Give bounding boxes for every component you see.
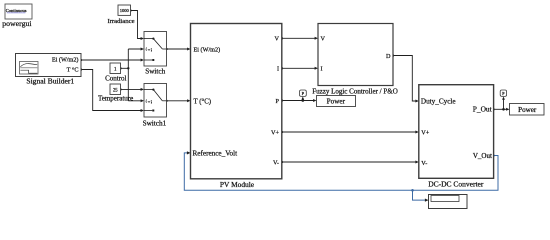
svg-text:powergui: powergui [2, 19, 32, 28]
svg-text:P_Out: P_Out [473, 105, 493, 114]
svg-text:DC-DC Converter: DC-DC Converter [428, 179, 484, 188]
svg-text:Continuous: Continuous [6, 8, 27, 13]
svg-text:PV Module: PV Module [220, 180, 255, 189]
svg-text:Temperature: Temperature [98, 94, 133, 102]
svg-text:V: V [321, 36, 326, 43]
svg-text:V-: V- [273, 159, 279, 166]
svg-text:Fuzzy Logic Controller / P&O: Fuzzy Logic Controller / P&O [312, 87, 398, 95]
svg-text:Switch1: Switch1 [143, 120, 167, 128]
svg-text:V_Out: V_Out [473, 152, 492, 160]
svg-text:{↔ţ: {↔ţ [145, 100, 153, 104]
svg-text:V+: V+ [421, 129, 429, 136]
svg-text:Duty_Cycle: Duty_Cycle [421, 98, 456, 106]
svg-text:I: I [277, 66, 279, 73]
svg-text:P: P [276, 98, 280, 105]
svg-text:V+: V+ [271, 129, 279, 136]
svg-text:T °C: T °C [67, 67, 79, 74]
svg-text:Ei (W/m2): Ei (W/m2) [52, 56, 79, 63]
svg-text:T (°C): T (°C) [194, 99, 212, 106]
svg-text:Irradiance: Irradiance [107, 18, 134, 25]
svg-text:Power: Power [518, 106, 537, 114]
svg-text:{↔ţ: {↔ţ [145, 48, 153, 52]
svg-text:Reference_Volt: Reference_Volt [193, 149, 238, 157]
svg-text:Switch: Switch [145, 68, 165, 76]
svg-text:I: I [321, 66, 323, 73]
svg-text:V: V [275, 36, 280, 43]
svg-text:Power: Power [327, 98, 346, 106]
svg-text:25: 25 [113, 88, 118, 93]
svg-text:V-: V- [421, 160, 427, 167]
svg-text:1000: 1000 [120, 8, 130, 13]
svg-text:D: D [386, 53, 391, 60]
svg-text:Control: Control [105, 74, 126, 82]
svg-text:Signal Builder1: Signal Builder1 [26, 76, 74, 85]
svg-text:Ei (W/m2): Ei (W/m2) [194, 46, 221, 53]
